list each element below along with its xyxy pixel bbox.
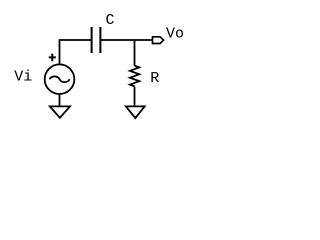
plus polarity mark bbox=[49, 54, 56, 62]
svg-text:R: R bbox=[150, 70, 159, 87]
svg-text:C: C bbox=[106, 12, 115, 29]
wire source bottom stem bbox=[59, 94, 61, 107]
capacitor C right plate bbox=[99, 27, 101, 53]
voltage source Vi circle bbox=[45, 64, 75, 94]
voltage source sine wave bbox=[50, 76, 70, 82]
svg-text:Vo: Vo bbox=[166, 25, 184, 42]
wire from source top to top rail corner bbox=[59, 40, 61, 65]
output port Vo bbox=[153, 37, 164, 44]
resistor R zigzag bbox=[130, 66, 139, 87]
ground under source bbox=[50, 106, 70, 117]
ground under resistor bbox=[126, 106, 145, 118]
wire top rail right segment from capacitor to output port bbox=[100, 39, 152, 41]
capacitor C left plate bbox=[91, 27, 93, 53]
wire resistor bottom lead bbox=[134, 86, 136, 107]
wire node junction down to resistor bbox=[134, 40, 136, 66]
wire top rail left segment to capacitor bbox=[59, 39, 92, 41]
svg-text:Vi: Vi bbox=[14, 69, 32, 86]
